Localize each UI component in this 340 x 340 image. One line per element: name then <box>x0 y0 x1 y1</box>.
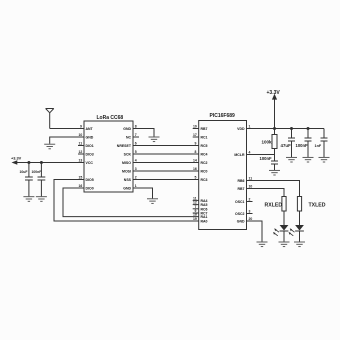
ground at C4 <box>286 157 297 162</box>
svg-text:TXLED: TXLED <box>309 203 326 209</box>
svg-text:14: 14 <box>193 158 197 162</box>
svg-text:VDD: VDD <box>237 127 245 131</box>
ground at C3 <box>269 170 280 175</box>
svg-text:5: 5 <box>195 175 197 179</box>
svg-text:100nF: 100nF <box>296 143 309 148</box>
svg-text:47uF: 47uF <box>281 143 292 148</box>
svg-text:MCLR: MCLR <box>234 153 245 157</box>
svg-text:100nF: 100nF <box>260 156 273 161</box>
LED D2 arrows <box>289 229 294 236</box>
svg-text:ANT: ANT <box>86 127 94 131</box>
svg-text:DIO0: DIO0 <box>86 187 94 191</box>
svg-text:MISO: MISO <box>122 161 131 165</box>
wire U2 pin10 to ground <box>50 137 84 144</box>
svg-text:3: 3 <box>249 209 251 213</box>
svg-text:17: 17 <box>193 133 197 137</box>
LED D1 RXLED <box>283 211 285 225</box>
svg-text:RC2: RC2 <box>201 161 208 165</box>
svg-text:NC: NC <box>126 136 132 140</box>
U1 pin 17 RC1 (left stub) <box>193 136 199 138</box>
svg-text:OSC1: OSC1 <box>235 200 245 204</box>
svg-text:1nF: 1nF <box>315 144 322 148</box>
svg-text:RC3: RC3 <box>201 178 208 182</box>
svg-text:4: 4 <box>135 158 137 162</box>
U1 pin 10 RB7 (left stub) <box>193 128 199 130</box>
wire +3.3V rail to U2 pin13 <box>17 162 84 164</box>
U1 pin 2 RA5 (stub) <box>193 204 199 206</box>
capacitor C5 100nF <box>305 129 312 158</box>
wire NSS U2 to U1 RC3 <box>133 179 199 181</box>
node junction 100nF <box>307 127 310 130</box>
svg-text:DIO1: DIO1 <box>86 144 94 148</box>
+3.3V supply arrow (top) <box>274 99 276 129</box>
svg-text:DIO5: DIO5 <box>86 178 94 182</box>
svg-text:1: 1 <box>249 124 251 128</box>
capacitor C6 1nF <box>321 129 328 158</box>
svg-text:RXLED: RXLED <box>265 203 283 209</box>
svg-text:9: 9 <box>80 124 82 128</box>
U2 pin 7 NC <box>133 136 139 138</box>
ground at LED D2 <box>294 242 305 247</box>
svg-text:100nF: 100nF <box>32 170 42 174</box>
svg-text:+3.3V: +3.3V <box>267 90 281 96</box>
wire VDD rail <box>247 128 325 130</box>
svg-text:10uF: 10uF <box>20 170 28 174</box>
ground at U1 GND <box>257 242 268 247</box>
ground at C6 <box>319 157 330 162</box>
svg-text:GND: GND <box>86 136 94 140</box>
resistor R3 (TXLED) <box>297 197 301 212</box>
svg-text:GND: GND <box>123 127 131 131</box>
ground at U2 pin10 <box>44 144 55 149</box>
wire RB6 to R3 TXLED <box>247 181 300 197</box>
svg-text:4: 4 <box>249 150 251 154</box>
wire RB7 to R2 RXLED <box>247 189 285 197</box>
wire U2 pin16 loop to U1 RA0 (inner) <box>63 188 199 217</box>
svg-text:6: 6 <box>135 141 137 145</box>
svg-text:RB7: RB7 <box>237 187 244 191</box>
svg-text:2: 2 <box>135 175 137 179</box>
U1 pin 3 OSC2 (stub) <box>247 213 253 215</box>
IC U2 LoRa CC68 <box>84 121 133 192</box>
svg-text:RC4: RC4 <box>201 153 208 157</box>
wire MCLR to R1/C3 <box>247 154 275 156</box>
svg-text:LoRa CC68: LoRa CC68 <box>97 115 124 121</box>
svg-text:13: 13 <box>79 158 83 162</box>
wire MOSI U2 to U1 RC0 <box>133 170 199 172</box>
node junction C1 <box>27 161 30 164</box>
svg-text:12: 12 <box>79 150 83 154</box>
svg-text:19: 19 <box>193 217 197 221</box>
svg-text:15: 15 <box>79 175 83 179</box>
ground at C2 <box>36 197 47 202</box>
svg-text:OSC2: OSC2 <box>235 212 245 216</box>
svg-text:10: 10 <box>79 133 83 137</box>
ground at C1 <box>23 197 34 202</box>
svg-text:3: 3 <box>135 167 137 171</box>
svg-text:RC0: RC0 <box>201 170 208 174</box>
svg-text:RA0: RA0 <box>201 220 208 224</box>
svg-text:10: 10 <box>193 124 197 128</box>
ground at C5 <box>303 157 314 162</box>
node junction C2 <box>40 161 43 164</box>
resistor R1 100k <box>274 129 276 135</box>
U1 pin 2 OSC1 (stub) <box>247 201 253 203</box>
svg-text:RB7: RB7 <box>201 127 208 131</box>
svg-text:VCC: VCC <box>86 161 94 165</box>
wire MISO U2 to U1 RC2 <box>133 162 199 164</box>
wire SCK U2 to U1 RC4 <box>133 153 199 155</box>
capacitor C1 10uF <box>25 163 33 197</box>
node junction VDD/100k <box>273 127 276 130</box>
svg-text:100k: 100k <box>262 140 273 145</box>
svg-text:5: 5 <box>135 150 137 154</box>
svg-text:16: 16 <box>193 167 197 171</box>
svg-text:10: 10 <box>249 184 253 188</box>
wire antenna to U2 ANT <box>50 128 84 130</box>
U2 pin 12 DIO3 <box>78 153 84 155</box>
svg-text:RA1: RA1 <box>201 215 208 219</box>
svg-text:16: 16 <box>79 184 83 188</box>
LED D2 TXLED <box>299 211 301 225</box>
svg-text:SCK: SCK <box>124 153 132 157</box>
U1 pin 3 RA4 (stub) <box>193 199 199 201</box>
svg-text:9: 9 <box>195 141 197 145</box>
svg-text:DIO3: DIO3 <box>86 153 94 157</box>
ground at U2 pin1 <box>147 199 158 204</box>
capacitor C3 100nF <box>271 155 278 171</box>
svg-text:RC1: RC1 <box>201 136 208 140</box>
svg-text:8: 8 <box>195 150 197 154</box>
svg-text:GND: GND <box>123 187 131 191</box>
svg-text:18: 18 <box>193 213 197 217</box>
ground at LED D1 <box>279 242 290 247</box>
svg-text:11: 11 <box>79 141 83 145</box>
svg-text:1: 1 <box>135 184 137 188</box>
svg-text:+3.3V: +3.3V <box>11 155 22 160</box>
LED D1 arrows <box>274 229 279 236</box>
wire U2 pin15 loop to U1 RA1 (outer) <box>54 180 199 222</box>
capacitor C4 47uF <box>288 129 295 158</box>
wire U1 GND to ground <box>247 221 263 242</box>
svg-text:RC5: RC5 <box>201 144 208 148</box>
capacitor C2 100nF <box>38 163 46 197</box>
U1 pin 9 RC7 (stub) <box>193 212 199 214</box>
svg-text:11: 11 <box>249 176 253 180</box>
+3.3V supply arrow (left) <box>12 160 18 165</box>
wire NRESET U2 to U1 RC5 <box>133 145 199 147</box>
svg-text:7: 7 <box>135 133 137 137</box>
U2 pin 11 DIO1 <box>78 145 84 147</box>
svg-text:NSS: NSS <box>124 178 132 182</box>
svg-text:20: 20 <box>249 217 253 221</box>
wire U2 pin8 to ground <box>133 129 154 137</box>
ground at U2 pin8 <box>149 137 160 142</box>
svg-text:GND: GND <box>237 220 245 224</box>
svg-text:MOSI: MOSI <box>122 170 131 174</box>
svg-text:8: 8 <box>135 124 137 128</box>
U1 pin 8 RC6 (stub) <box>193 208 199 210</box>
svg-text:2: 2 <box>249 197 251 201</box>
antenna ANT1 <box>46 109 54 129</box>
node junction 47uF <box>290 127 293 130</box>
svg-text:PIC16F689: PIC16F689 <box>210 113 236 119</box>
IC U1 PIC16F689 <box>199 121 247 230</box>
svg-text:NRESET: NRESET <box>117 144 132 148</box>
wire U2 pin1 to ground <box>133 188 153 198</box>
svg-text:RB6: RB6 <box>237 179 244 183</box>
resistor R2 (RXLED) <box>282 197 286 212</box>
